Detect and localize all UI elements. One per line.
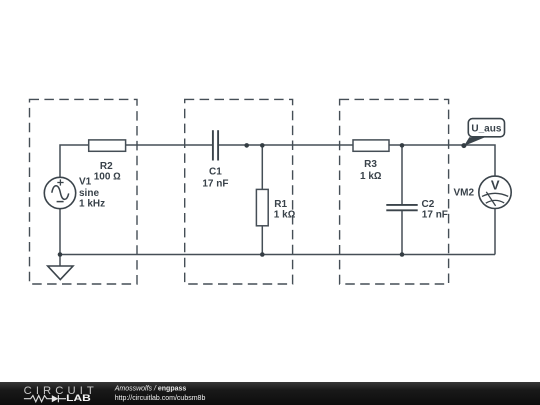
svg-text:V: V [491, 178, 500, 193]
svg-text:R3: R3 [364, 159, 377, 170]
wire ground stub [59, 255, 61, 267]
svg-text:V1: V1 [79, 176, 92, 187]
resistor R3 [353, 140, 389, 151]
svg-text:C2: C2 [422, 199, 435, 210]
capacitor C2 [386, 205, 417, 210]
svg-text:R2: R2 [100, 161, 113, 172]
node C1 out [244, 143, 249, 148]
wire R1 top branch [261, 145, 263, 189]
node U_aus [461, 143, 466, 148]
voltage source V1 [44, 177, 75, 208]
svg-text:LAB: LAB [66, 393, 91, 403]
svg-text:R1: R1 [274, 199, 287, 210]
node ground [58, 252, 63, 257]
svg-text:1 kHz: 1 kHz [79, 199, 105, 210]
stage box 3 [340, 99, 449, 284]
wire bottom rail [60, 254, 495, 256]
R3 labels [360, 159, 382, 182]
C1 labels [202, 167, 228, 190]
R2 labels [94, 161, 121, 183]
footer bar [0, 382, 540, 405]
svg-text:Amosswolfs / engpass: Amosswolfs / engpass [114, 385, 187, 392]
wire C2 top branch [401, 145, 403, 205]
stage box 2 [185, 99, 293, 284]
resistor R1 [256, 189, 268, 225]
node R1 bottom [260, 252, 265, 257]
C2 labels [422, 199, 448, 221]
svg-text:U_aus: U_aus [471, 123, 501, 134]
node C2 bottom [400, 252, 405, 257]
resistor R2 [89, 140, 126, 151]
wire R1 bottom branch [261, 226, 263, 255]
ground [48, 266, 73, 280]
CircuitLab logo resistor-diode glyph [24, 395, 66, 402]
wire VM2 bottom branch [494, 209, 496, 255]
wire V1 top to R2 [60, 145, 89, 177]
svg-text:C1: C1 [209, 167, 222, 178]
wire C2 bottom branch [401, 211, 403, 255]
wire C1 to R3 [218, 144, 353, 146]
wire R3 to VM2 top [389, 145, 495, 176]
V1 labels [79, 176, 105, 209]
R1 labels [274, 199, 296, 221]
svg-text:100 Ω: 100 Ω [94, 172, 121, 183]
wire R2 to C1 [126, 144, 213, 146]
capacitor C1 [213, 130, 218, 160]
svg-text:1 kΩ: 1 kΩ [274, 209, 296, 220]
svg-text:VM2: VM2 [453, 187, 474, 198]
svg-text:1 kΩ: 1 kΩ [360, 171, 382, 182]
net label U_aus [464, 119, 505, 146]
svg-text:sine: sine [79, 188, 99, 199]
node R1 top [260, 143, 265, 148]
svg-text:http://circuitlab.com/cubsm8b: http://circuitlab.com/cubsm8b [115, 395, 206, 402]
wire V1 bottom [59, 209, 61, 255]
svg-text:17 nF: 17 nF [422, 210, 448, 221]
voltmeter VM2 [479, 176, 511, 208]
svg-text:17 nF: 17 nF [202, 179, 228, 190]
node C2 top [400, 143, 405, 148]
stage box 1 [30, 99, 138, 284]
